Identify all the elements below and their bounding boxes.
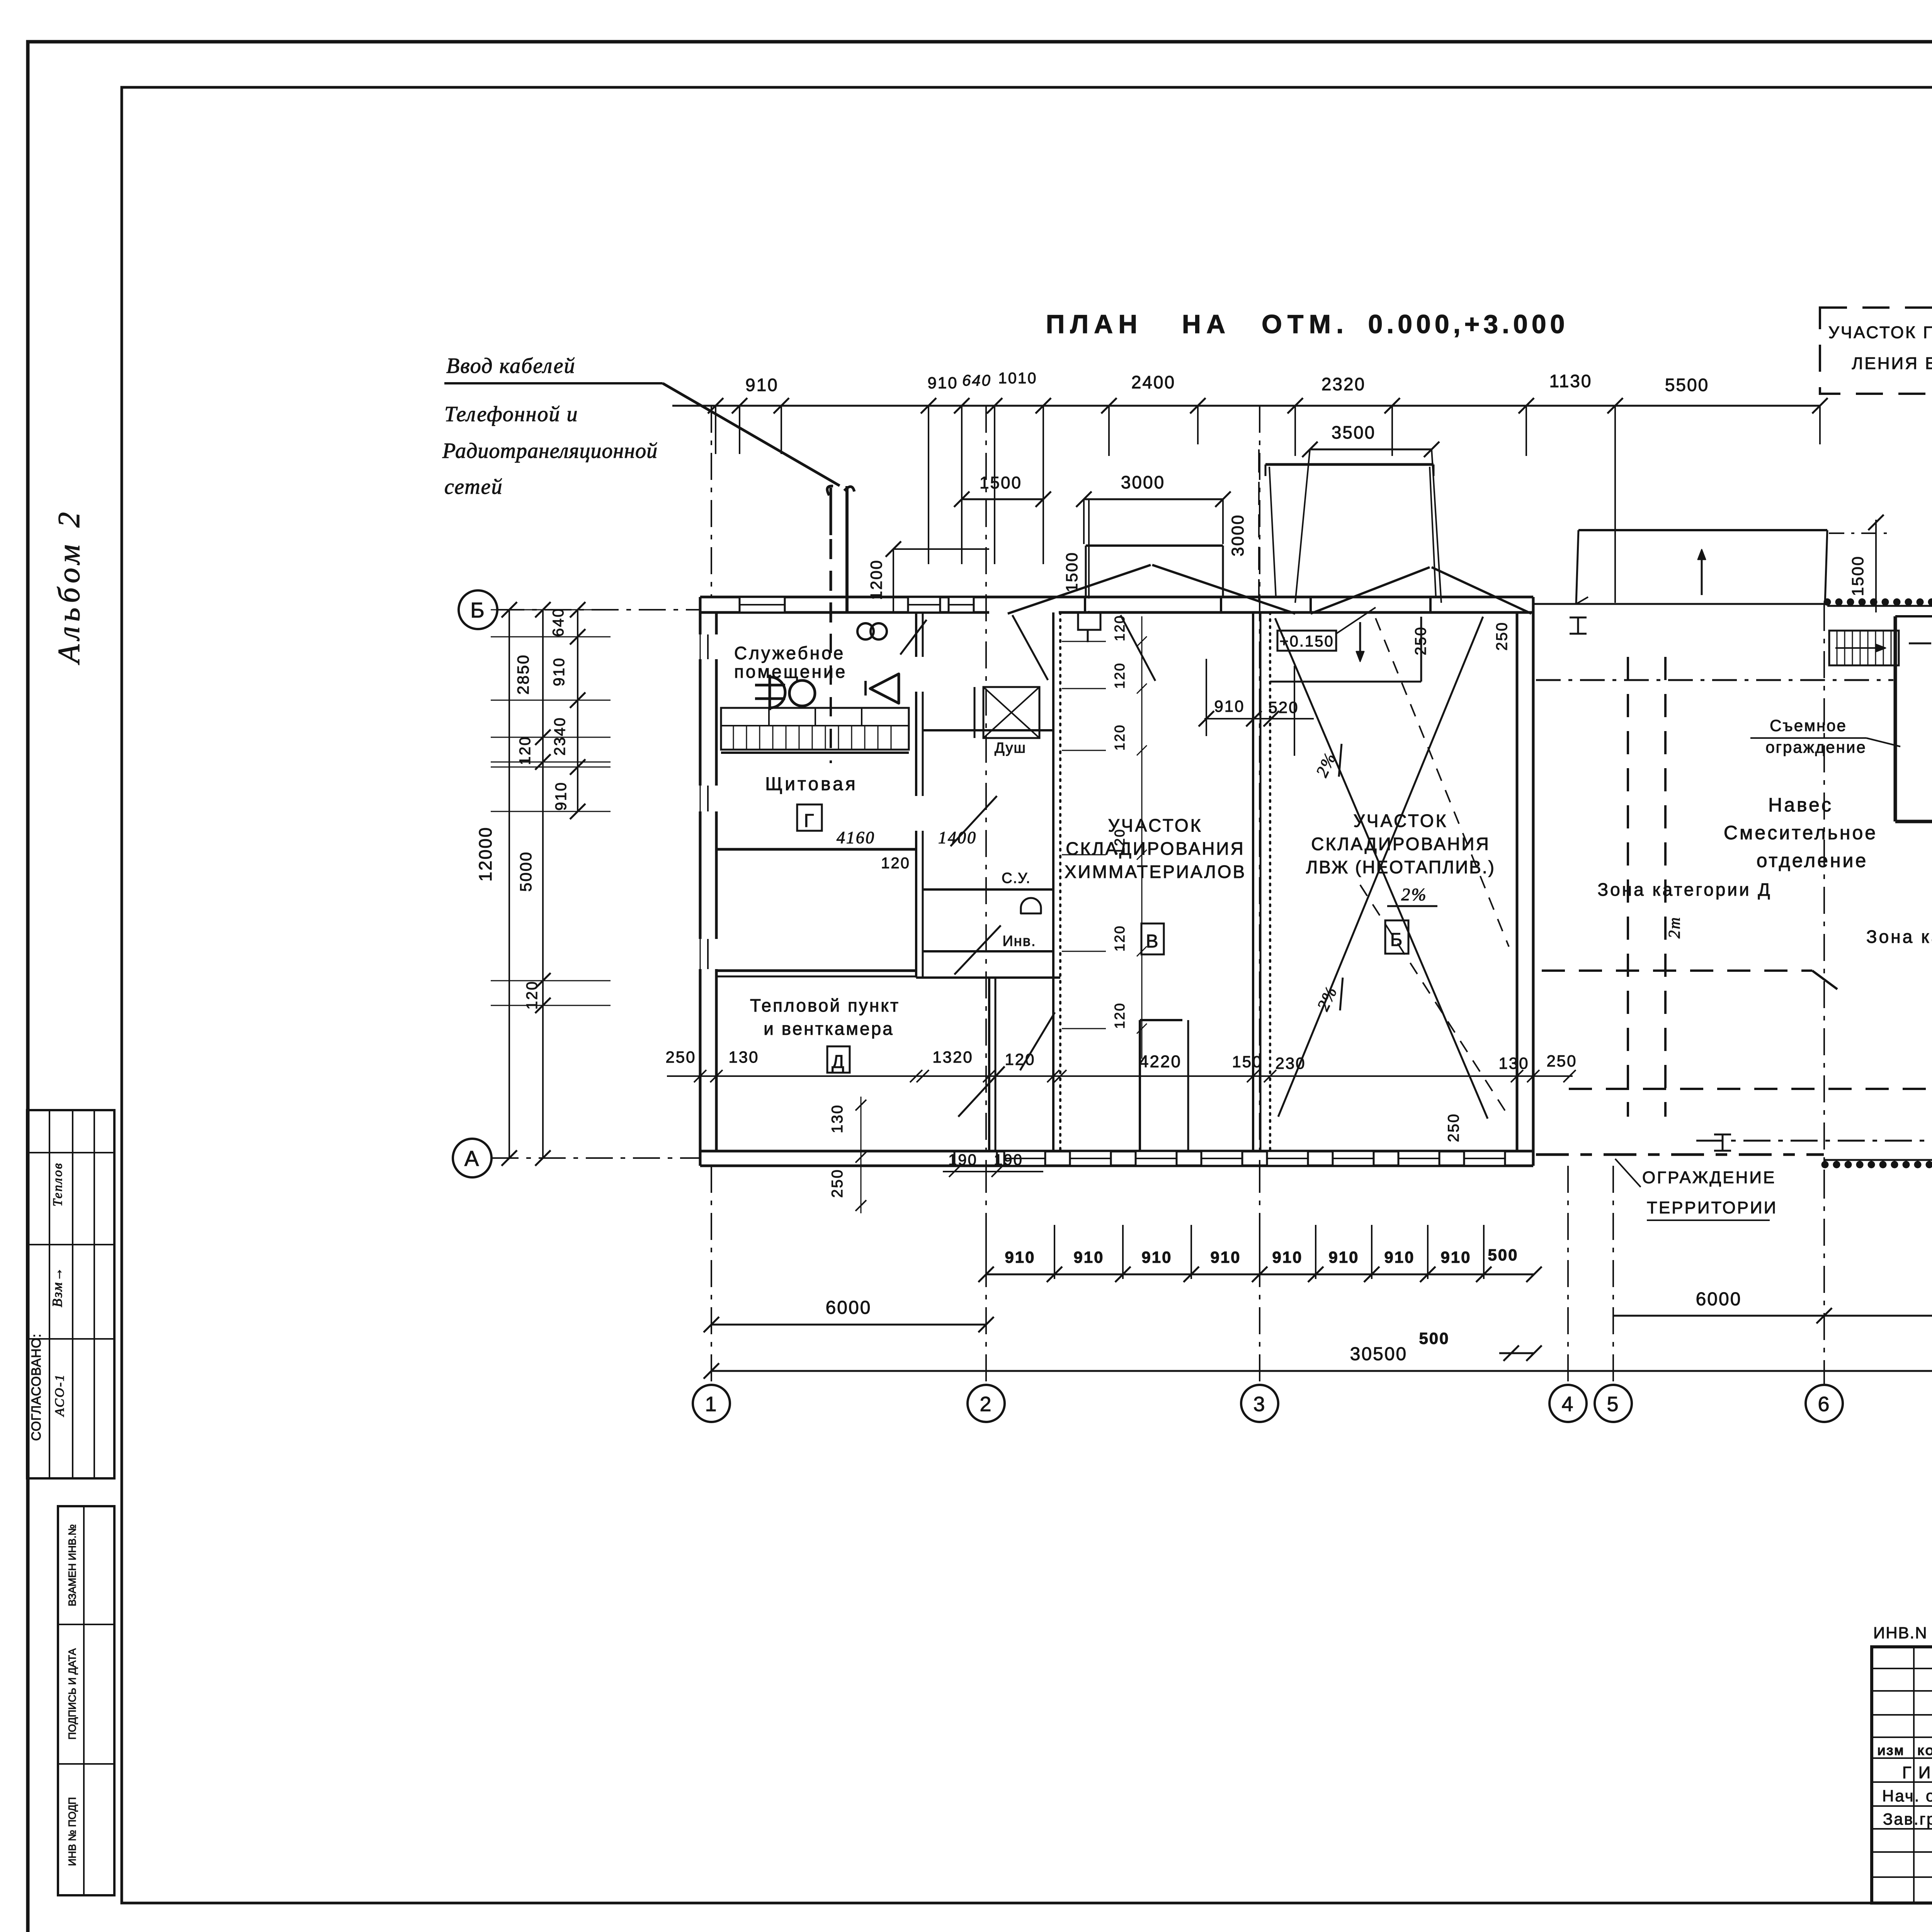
lvzh roof diagonal 1 bbox=[1275, 618, 1488, 1119]
shed dashdot axis line A bbox=[1696, 1140, 1932, 1142]
svg-text:ПЛАН: ПЛАН bbox=[1046, 310, 1143, 339]
svg-text:КОЛ.УЧ: КОЛ.УЧ bbox=[1918, 1745, 1932, 1757]
mixing section box bbox=[1895, 616, 1932, 821]
I-beam column marks bbox=[1570, 617, 1932, 1162]
svg-text:ИЗМ: ИЗМ bbox=[1878, 1745, 1905, 1757]
inventory stamp row 1 bbox=[58, 1624, 114, 1625]
symbol speaker triangle bbox=[866, 620, 927, 703]
svg-text:130: 130 bbox=[1498, 1054, 1529, 1072]
svg-text:С.У.: С.У. bbox=[1002, 870, 1031, 886]
svg-text:500: 500 bbox=[1419, 1329, 1449, 1347]
svg-text:250: 250 bbox=[1493, 621, 1510, 651]
svg-text:Щитовая: Щитовая bbox=[765, 774, 858, 794]
bitumen area dashed box bbox=[1820, 308, 1932, 394]
svg-text:отделение: отделение bbox=[1757, 850, 1868, 871]
svg-text:150: 150 bbox=[1232, 1053, 1262, 1071]
room letter box D bbox=[827, 1046, 850, 1073]
room letter box V bbox=[1141, 923, 1164, 954]
svg-text:Г И П: Г И П bbox=[1902, 1763, 1932, 1782]
svg-text:Зав.гр.: Зав.гр. bbox=[1883, 1810, 1932, 1828]
dim label 500 b bbox=[1419, 1329, 1542, 1361]
note territory fence bbox=[1615, 1159, 1777, 1220]
left wall niches bbox=[699, 634, 718, 969]
label naves bbox=[1724, 794, 1878, 871]
room letter box B bbox=[1385, 920, 1408, 954]
wall building top outer line bbox=[700, 596, 1533, 599]
svg-text:1130: 1130 bbox=[1549, 371, 1592, 391]
svg-text:120: 120 bbox=[517, 736, 534, 765]
wall wc partition bbox=[923, 888, 1053, 891]
svg-text:Б: Б bbox=[470, 598, 486, 622]
creno top band bbox=[1827, 602, 1932, 606]
top dimension ticks bbox=[708, 398, 1828, 444]
title row GIP bbox=[1902, 1763, 1932, 1782]
shed north boundary line bbox=[1533, 603, 1829, 605]
wall shower partition bbox=[923, 729, 1053, 731]
svg-text:Тепловой пункт: Тепловой пункт bbox=[750, 995, 900, 1015]
svg-text:Д: Д bbox=[832, 1052, 845, 1072]
level mark +0.150 bbox=[1277, 607, 1376, 651]
wall building right bbox=[1517, 597, 1533, 1166]
top dimension line bbox=[672, 405, 1820, 407]
svg-text:6000: 6000 bbox=[826, 1298, 872, 1318]
lvzh slope label upper bbox=[1312, 744, 1342, 780]
zone D dashed boundary bbox=[1542, 971, 1837, 989]
svg-text:30500: 30500 bbox=[1350, 1344, 1407, 1364]
svg-text:2320: 2320 bbox=[1321, 374, 1366, 394]
svg-text:250: 250 bbox=[665, 1048, 696, 1066]
svg-text:ОГРАЖДЕНИЕ: ОГРАЖДЕНИЕ bbox=[1642, 1168, 1776, 1187]
office cabinet band bbox=[721, 708, 909, 750]
window top wall 3 bbox=[949, 597, 974, 612]
axis circle A bbox=[453, 1139, 492, 1177]
axis circle 5 bbox=[1595, 1385, 1632, 1422]
svg-text:230: 230 bbox=[1275, 1054, 1306, 1072]
svg-text:ИНВ № ПОДП: ИНВ № ПОДП bbox=[66, 1797, 78, 1866]
svg-text:120: 120 bbox=[1112, 614, 1128, 641]
windows bottom wall row bbox=[1004, 1151, 1505, 1166]
svg-text:2%: 2% bbox=[1401, 884, 1427, 904]
wall interior horizontal 1 bbox=[716, 848, 916, 851]
svg-text:250: 250 bbox=[1546, 1052, 1577, 1070]
door swing lvzh bbox=[1121, 615, 1155, 681]
svg-text:910: 910 bbox=[1384, 1248, 1415, 1266]
symbol double circle top bbox=[857, 623, 887, 639]
svg-text:А: А bbox=[464, 1146, 480, 1170]
title header row labels bbox=[1878, 1745, 1932, 1757]
svg-text:УЧАСТОК: УЧАСТОК bbox=[1354, 811, 1448, 831]
svg-text:4: 4 bbox=[1561, 1393, 1574, 1416]
svg-text:3500: 3500 bbox=[1332, 422, 1376, 442]
svg-text:Б: Б bbox=[1390, 930, 1404, 950]
door swing corridor 3 bbox=[954, 925, 1001, 975]
crane track dashed left bbox=[1627, 657, 1629, 1117]
svg-text:сетей: сетей bbox=[444, 475, 503, 499]
svg-text:0.000,+3.000: 0.000,+3.000 bbox=[1368, 310, 1569, 339]
dim 1200 vertical bbox=[867, 541, 989, 614]
axis drop lines 1-7 bbox=[711, 1166, 1932, 1384]
note cable entry underline bbox=[444, 382, 663, 384]
gate leaf swing 2 left bbox=[1311, 567, 1430, 614]
mixing inner dashdot line bbox=[1909, 643, 1932, 645]
svg-text:5500: 5500 bbox=[1665, 375, 1709, 395]
approval stamp table frame bbox=[27, 1110, 114, 1478]
svg-text:Телефонной и: Телефонной и bbox=[444, 402, 578, 426]
svg-text:ОТМ.: ОТМ. bbox=[1262, 310, 1349, 339]
svg-text:ТЕРРИТОРИИ: ТЕРРИТОРИИ bbox=[1647, 1198, 1777, 1217]
svg-text:2400: 2400 bbox=[1131, 372, 1175, 392]
svg-text:ИНВ.N: ИНВ.N bbox=[1873, 1624, 1928, 1642]
svg-text:1500: 1500 bbox=[1849, 555, 1867, 596]
title row nach otd bbox=[1882, 1787, 1932, 1805]
svg-text:910: 910 bbox=[553, 781, 570, 811]
dim 3000 vertical bbox=[1228, 449, 1259, 603]
svg-text:Смесительное: Смесительное bbox=[1724, 822, 1878, 844]
axis circle 4 bbox=[1549, 1385, 1587, 1422]
svg-text:Г: Г bbox=[804, 811, 815, 831]
dim row 6000 line c bbox=[1824, 1289, 1932, 1323]
shed boundary dash-dot top bbox=[1536, 679, 1893, 681]
dim 1500 line bbox=[954, 473, 1051, 545]
door swing heating 2 bbox=[958, 1066, 1005, 1117]
svg-text:640: 640 bbox=[962, 372, 992, 389]
axis line A horizontal bbox=[492, 1157, 700, 1159]
svg-text:3000: 3000 bbox=[1121, 472, 1165, 492]
office band lower line bbox=[721, 752, 909, 754]
svg-text:ЛЕНИЯ БИТУМА: ЛЕНИЯ БИТУМА bbox=[1852, 354, 1932, 373]
svg-text:Съемное: Съемное bbox=[1770, 716, 1847, 735]
svg-text:Теплов: Теплов bbox=[51, 1162, 65, 1207]
dim row 6000 line a bbox=[704, 1298, 994, 1332]
label chem storage bbox=[1065, 815, 1246, 882]
inventory stamp table frame bbox=[58, 1506, 114, 1895]
left dim chain line 3 bbox=[577, 610, 578, 811]
svg-text:910: 910 bbox=[551, 657, 568, 686]
svg-text:Взм→: Взм→ bbox=[49, 1266, 65, 1307]
lvzh dashed diagonal bbox=[1376, 618, 1509, 947]
wall chem-store right bbox=[1253, 612, 1260, 1151]
label lvzh slope bbox=[1387, 884, 1437, 906]
gate leaf swing left bbox=[1008, 565, 1151, 614]
svg-text:5000: 5000 bbox=[517, 851, 535, 891]
window top wall 1 bbox=[740, 597, 785, 612]
left dim chain line 12000 bbox=[502, 602, 517, 1166]
dim row 910 labels bbox=[1005, 1248, 1471, 1266]
cable duct lower dashes bbox=[830, 634, 832, 763]
axis line B horizontal bbox=[497, 609, 700, 611]
axis circle 2 bbox=[968, 1385, 1005, 1422]
svg-text:120: 120 bbox=[881, 855, 910, 872]
svg-text:6000: 6000 bbox=[1696, 1289, 1742, 1310]
wall building top inner line bbox=[700, 611, 1533, 614]
dim row 910 line bbox=[986, 1274, 1534, 1276]
door opening bottom wall bbox=[954, 1151, 997, 1166]
svg-text:Инв.: Инв. bbox=[1002, 933, 1036, 949]
heating room inner walls bbox=[1140, 1020, 1188, 1151]
approval stamp row line 2 bbox=[27, 1244, 114, 1245]
svg-text:ЛВЖ (НЕОТАПЛИВ.): ЛВЖ (НЕОТАПЛИВ.) bbox=[1306, 857, 1495, 877]
svg-text:250: 250 bbox=[1445, 1113, 1462, 1142]
wall inv partition bbox=[923, 950, 1053, 952]
svg-text:СКЛАДИРОВАНИЯ: СКЛАДИРОВАНИЯ bbox=[1066, 838, 1245, 859]
svg-text:1320: 1320 bbox=[932, 1048, 973, 1066]
svg-text:4220: 4220 bbox=[1139, 1052, 1182, 1071]
door jamb detail top wall bbox=[1078, 612, 1100, 642]
svg-text:+0.150: +0.150 bbox=[1279, 633, 1334, 650]
dim 120 column small rooms bbox=[1062, 614, 1147, 1059]
approval stamp col line 2 bbox=[72, 1110, 73, 1478]
svg-text:Радиотранеляционной: Радиотранеляционной bbox=[442, 439, 658, 463]
label lvzh storage bbox=[1306, 811, 1495, 877]
wall interior horizontal 2 bbox=[716, 971, 916, 976]
svg-text:190: 190 bbox=[994, 1151, 1023, 1168]
svg-text:Служебное: Служебное bbox=[734, 643, 845, 663]
dim 3000 line bbox=[1076, 472, 1231, 544]
symbol telephone outlet bbox=[755, 675, 785, 710]
inventory stamp row 2 bbox=[58, 1763, 114, 1765]
svg-text:910: 910 bbox=[1272, 1248, 1303, 1266]
top dim drop lines bbox=[716, 406, 1615, 603]
canopy left bbox=[1086, 546, 1223, 597]
window top wall 2 bbox=[908, 597, 940, 612]
svg-text:120: 120 bbox=[1005, 1050, 1035, 1068]
cable duct line right bbox=[844, 486, 854, 492]
territory fence dashed bbox=[1536, 1148, 1932, 1158]
drawing title bbox=[1046, 310, 1569, 339]
title row zav gr bbox=[1883, 1810, 1932, 1828]
dim 1500 vertical mid bbox=[1063, 499, 1089, 614]
left dim chain 3 ticks bbox=[570, 602, 585, 819]
svg-text:910: 910 bbox=[1005, 1248, 1035, 1266]
svg-text:2т: 2т bbox=[1666, 916, 1684, 938]
left dim chain 2 ticks bbox=[535, 602, 551, 1166]
inventory stamp divider bbox=[83, 1506, 85, 1895]
axis line 1 upper bbox=[711, 406, 712, 597]
svg-text:НА: НА bbox=[1182, 310, 1231, 339]
wall building left bbox=[700, 597, 716, 1166]
svg-text:ВЗАМЕН ИНВ.№: ВЗАМЕН ИНВ.№ bbox=[66, 1524, 78, 1606]
lvzh slope label lower bbox=[1313, 978, 1343, 1014]
svg-text:и венткамера: и венткамера bbox=[764, 1019, 894, 1039]
svg-text:910: 910 bbox=[1440, 1248, 1471, 1266]
svg-text:Зона категории Д: Зона категории Д bbox=[1597, 879, 1772, 900]
title block outer frame bbox=[1872, 1647, 1932, 1903]
svg-text:1010: 1010 bbox=[998, 370, 1037, 387]
axis line 2 through plan bbox=[985, 406, 987, 1166]
interior dim line bottom bbox=[667, 1075, 1573, 1077]
svg-text:910: 910 bbox=[1328, 1248, 1359, 1266]
svg-text:120: 120 bbox=[1112, 662, 1128, 689]
gate leaf swing right bbox=[1152, 565, 1295, 614]
svg-text:СОГЛАСОВАНО:: СОГЛАСОВАНО: bbox=[29, 1333, 44, 1441]
svg-text:3000: 3000 bbox=[1228, 514, 1247, 556]
lvzh roof diagonal 2 bbox=[1278, 617, 1483, 1117]
note removable fence bbox=[1750, 716, 1900, 756]
gate leaf swing 2 right bbox=[1432, 567, 1531, 614]
svg-text:2850: 2850 bbox=[514, 654, 532, 694]
cable duct line left bbox=[827, 486, 833, 495]
interior dim ticks bottom bbox=[694, 1070, 1576, 1082]
svg-text:3: 3 bbox=[1253, 1393, 1266, 1416]
svg-text:4160: 4160 bbox=[837, 828, 875, 847]
cable leader diagonal bbox=[663, 383, 840, 486]
platform down arrow bbox=[1356, 622, 1364, 662]
svg-text:910: 910 bbox=[927, 374, 958, 392]
axis circle 6 bbox=[1806, 1385, 1843, 1422]
gate opening axis2-3 bbox=[1085, 597, 1221, 612]
svg-text:Навес: Навес bbox=[1768, 794, 1833, 816]
svg-text:Ввод кабелей: Ввод кабелей bbox=[446, 354, 575, 378]
dim 1500 vertical right bbox=[1829, 515, 1889, 612]
svg-text:910: 910 bbox=[1214, 697, 1245, 715]
canopy middle bbox=[1265, 464, 1436, 597]
wall building bottom outer bbox=[700, 1165, 1533, 1167]
svg-text:1400: 1400 bbox=[938, 828, 977, 847]
left dim chain line 2 bbox=[542, 610, 544, 1158]
zone boundary dashed bottom bbox=[1569, 1088, 1932, 1090]
label heating room bbox=[750, 995, 900, 1039]
wall building bottom inner bbox=[700, 1150, 1533, 1153]
svg-text:ХИММАТЕРИАЛОВ: ХИММАТЕРИАЛОВ bbox=[1065, 862, 1246, 882]
svg-text:130: 130 bbox=[829, 1104, 846, 1133]
bitumen area label bbox=[1828, 323, 1932, 373]
svg-text:2340: 2340 bbox=[551, 717, 568, 756]
svg-text:Нач. отд.: Нач. отд. bbox=[1882, 1787, 1932, 1805]
svg-text:190: 190 bbox=[948, 1151, 978, 1168]
svg-text:250: 250 bbox=[829, 1168, 846, 1198]
label office room bbox=[734, 643, 847, 682]
svg-text:Зона категории Б: Зона категории Б bbox=[1866, 927, 1932, 947]
room letter box G bbox=[797, 804, 822, 831]
svg-text:Альбом 2: Альбом 2 bbox=[52, 507, 86, 665]
wall corridor vertical bbox=[916, 612, 923, 978]
entrance platform bbox=[1270, 617, 1421, 682]
door swing heating bbox=[1020, 1012, 1055, 1070]
dim row 6000 line b bbox=[1613, 1289, 1832, 1323]
title block left table verticals bbox=[1914, 1647, 1932, 1903]
svg-text:1: 1 bbox=[705, 1393, 718, 1416]
svg-text:120: 120 bbox=[1112, 1002, 1128, 1029]
axis line 6 upper bbox=[1823, 604, 1825, 1172]
dim 4160 switch room bbox=[716, 828, 977, 872]
svg-text:1500: 1500 bbox=[1063, 551, 1081, 592]
approval stamp col line 1 bbox=[49, 1110, 50, 1478]
svg-text:12000: 12000 bbox=[475, 827, 495, 882]
duct shaft box bbox=[975, 687, 1039, 738]
door swing corridor 1 bbox=[1012, 615, 1048, 680]
symbol radio outlet circle bbox=[789, 680, 815, 706]
dim 190 pair bbox=[943, 1151, 1043, 1177]
left dim tick extension lines bbox=[491, 610, 611, 1005]
svg-text:120: 120 bbox=[1112, 828, 1128, 855]
svg-text:6: 6 bbox=[1818, 1393, 1830, 1416]
wall lvzh left bbox=[1269, 612, 1271, 1151]
svg-text:910: 910 bbox=[1073, 1248, 1104, 1266]
svg-text:УЧАСТОК ПРИГОТОВ-: УЧАСТОК ПРИГОТОВ- bbox=[1828, 323, 1932, 342]
crane track dashed right bbox=[1664, 657, 1667, 1117]
gate opening axis3-4 bbox=[1311, 597, 1430, 612]
svg-text:120: 120 bbox=[1112, 724, 1128, 750]
svg-text:АСО-1: АСО-1 bbox=[53, 1374, 67, 1417]
svg-text:910: 910 bbox=[1210, 1248, 1241, 1266]
axis circle 3 bbox=[1241, 1385, 1278, 1422]
dim row 910 ticks bbox=[978, 1225, 1542, 1282]
door swing corridor 2 bbox=[951, 796, 997, 846]
canopy right bbox=[1576, 530, 1827, 604]
dim 130 rotated bbox=[829, 1097, 866, 1213]
axis circle 1 bbox=[693, 1385, 730, 1422]
svg-text:5: 5 bbox=[1607, 1393, 1619, 1416]
approval stamp row line 3 bbox=[27, 1338, 114, 1340]
canopy right arrow bbox=[1698, 549, 1706, 595]
svg-text:640: 640 bbox=[550, 607, 567, 637]
svg-text:120: 120 bbox=[1112, 925, 1128, 951]
svg-text:910: 910 bbox=[1141, 1248, 1172, 1266]
svg-text:В: В bbox=[1146, 931, 1159, 952]
wall small rooms vertical dotted bbox=[1053, 612, 1060, 1151]
svg-text:СКЛАДИРОВАНИЯ: СКЛАДИРОВАНИЯ bbox=[1311, 834, 1490, 854]
svg-text:2: 2 bbox=[980, 1393, 992, 1416]
title block left table horizontals bbox=[1872, 1668, 1932, 1877]
dim row 30500 line bbox=[704, 1344, 1932, 1379]
lvzh interior dim 910 bbox=[1199, 659, 1314, 756]
svg-text:1200: 1200 bbox=[867, 559, 885, 600]
creno bottom band bbox=[1825, 1160, 1932, 1165]
svg-text:910: 910 bbox=[745, 375, 779, 395]
svg-text:500: 500 bbox=[1488, 1246, 1518, 1264]
svg-text:ПОДПИСЬ И ДАТА: ПОДПИСЬ И ДАТА bbox=[66, 1648, 78, 1740]
svg-text:Душ: Душ bbox=[995, 740, 1026, 756]
wall heating room right bbox=[989, 976, 995, 1151]
dim 3500 line bbox=[1295, 422, 1441, 603]
lvzh dashed diagonal 2 bbox=[1360, 885, 1509, 1117]
approval stamp row line 1 bbox=[27, 1152, 114, 1153]
stairs top-left bbox=[1829, 631, 1899, 665]
svg-text:ограждение: ограждение bbox=[1765, 738, 1866, 756]
approval stamp col line 3 bbox=[94, 1110, 95, 1478]
svg-text:130: 130 bbox=[728, 1048, 759, 1066]
axis circle B bbox=[459, 590, 497, 629]
symbol toilet bbox=[1021, 898, 1041, 913]
wall corridor bottom bbox=[916, 976, 1060, 979]
axis line 3 through plan bbox=[1259, 406, 1260, 1166]
svg-text:помещение: помещение bbox=[734, 662, 847, 682]
